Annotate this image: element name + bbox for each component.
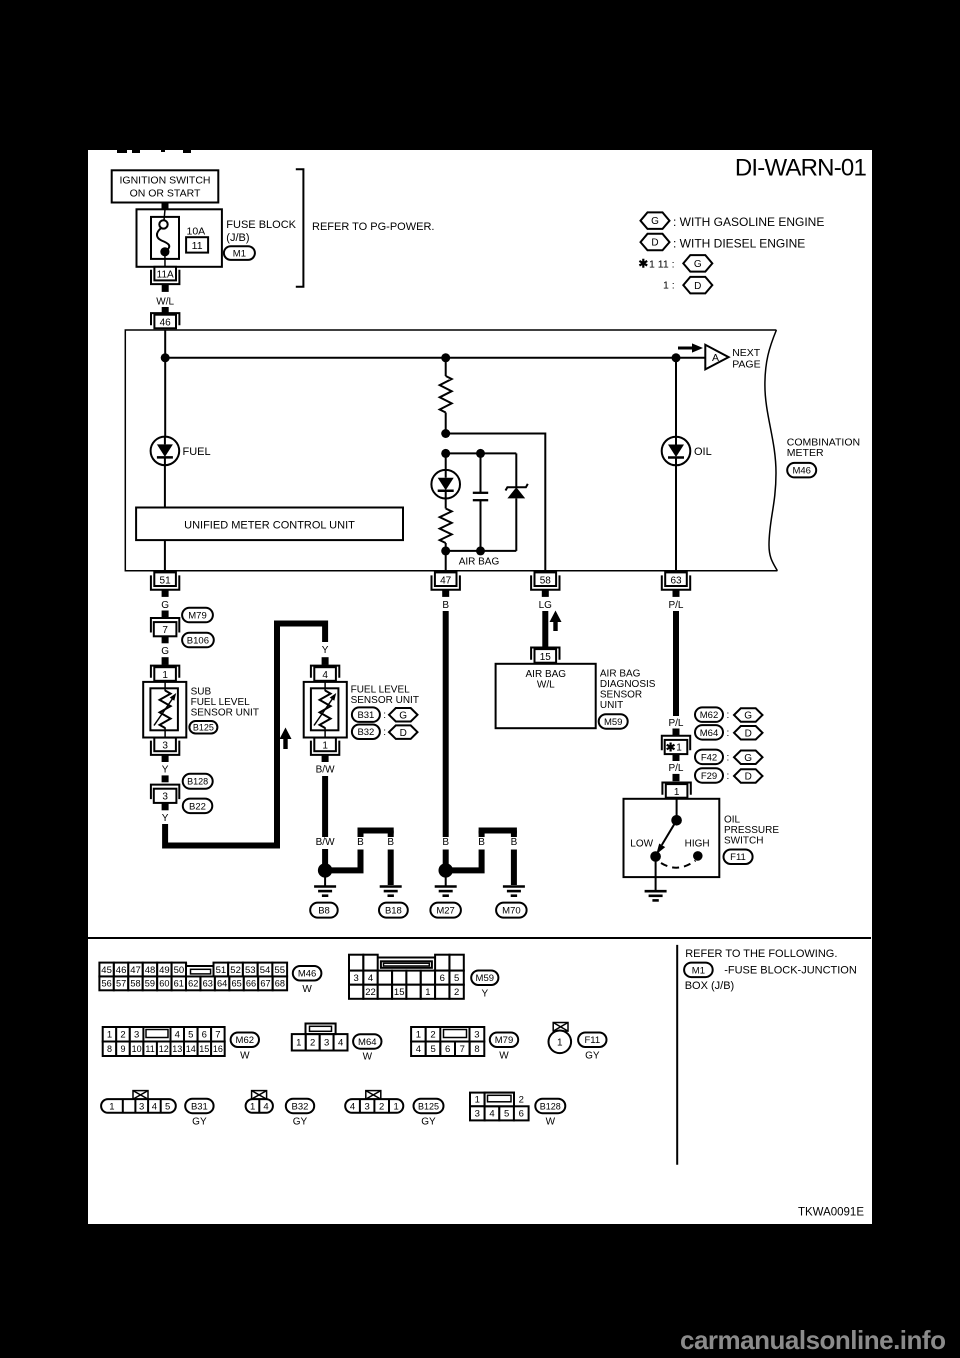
- svg-text:1: 1: [557, 1037, 563, 1048]
- svg-text:7: 7: [215, 1030, 220, 1041]
- connector 1 fuel level sensor: [311, 741, 339, 755]
- svg-text:56: 56: [101, 979, 111, 989]
- svg-text:W/L: W/L: [537, 679, 555, 690]
- svg-text:AIR BAG: AIR BAG: [459, 557, 500, 568]
- svg-text:G: G: [744, 753, 752, 764]
- svg-text:Y: Y: [481, 989, 488, 1000]
- connector id M64 pill with D: [695, 725, 723, 740]
- svg-text:12: 12: [159, 1044, 169, 1054]
- svg-text:TKWA0091E: TKWA0091E: [798, 1207, 864, 1219]
- sub fuel variable resistor: [164, 682, 166, 691]
- svg-text:GY: GY: [421, 1116, 436, 1127]
- fuse number 11 box: [186, 237, 208, 252]
- connector M59 grid: [349, 955, 363, 971]
- svg-text:64: 64: [217, 979, 227, 989]
- connector id F11: [578, 1033, 606, 1048]
- svg-text:B/W: B/W: [316, 764, 335, 775]
- wire 46 to bus: [164, 330, 166, 358]
- svg-text:M79: M79: [495, 1035, 513, 1046]
- svg-text:7: 7: [460, 1044, 465, 1055]
- svg-text:G: G: [651, 216, 659, 227]
- stub below 3: [162, 755, 169, 762]
- svg-text:F42: F42: [701, 752, 717, 763]
- svg-text:M27: M27: [436, 906, 454, 917]
- svg-text:4: 4: [416, 1044, 421, 1055]
- connector M46 key: [186, 965, 213, 967]
- connector id B125: [414, 1099, 444, 1114]
- connector M79 grid: [411, 1027, 426, 1042]
- connector 11A: [151, 270, 179, 284]
- inline connector 7: [151, 618, 179, 633]
- svg-text:7: 7: [162, 625, 168, 636]
- svg-text:57: 57: [116, 979, 126, 989]
- svg-text:B128: B128: [540, 1101, 561, 1111]
- svg-text:W: W: [363, 1052, 373, 1063]
- ignition switch box: [112, 170, 219, 202]
- svg-text:1: 1: [393, 1101, 398, 1112]
- svg-text:SWITCH: SWITCH: [724, 836, 763, 847]
- svg-text:-FUSE BLOCK-JUNCTION: -FUSE BLOCK-JUNCTION: [724, 965, 857, 977]
- connector M59 key: [378, 957, 435, 959]
- svg-text:B: B: [357, 837, 364, 848]
- wire switch to ground: [655, 857, 657, 891]
- svg-text:M1: M1: [233, 248, 246, 259]
- node junction air bag branch: [441, 353, 450, 362]
- svg-text::: :: [727, 710, 730, 721]
- wire M27 to M70 loop: [450, 850, 482, 871]
- sub fuel sensor inner box: [150, 688, 178, 730]
- svg-text:M59: M59: [604, 717, 622, 728]
- svg-text:53: 53: [245, 965, 256, 976]
- svg-text:5: 5: [504, 1109, 509, 1120]
- svg-text:AIR BAG: AIR BAG: [600, 669, 641, 680]
- svg-text:B32: B32: [292, 1101, 309, 1112]
- stub Y to connector 3 B22: [162, 775, 169, 782]
- svg-text:Y: Y: [162, 813, 169, 824]
- ground junction M27: [439, 863, 453, 877]
- wire fuel to unified meter control unit: [164, 465, 166, 507]
- svg-text:45: 45: [101, 965, 112, 976]
- svg-text:10A: 10A: [187, 225, 206, 237]
- node junction cap branch: [441, 449, 450, 458]
- ground B8: [324, 870, 326, 886]
- stub 58: [542, 590, 549, 597]
- svg-text:3: 3: [354, 973, 359, 984]
- svg-text:1: 1: [322, 741, 328, 752]
- svg-text:ON OR START: ON OR START: [130, 187, 201, 199]
- svg-text:G: G: [399, 710, 407, 721]
- unified meter control unit box: [136, 508, 403, 541]
- connector M62 key: [146, 1030, 168, 1038]
- svg-text:W/L: W/L: [156, 297, 174, 308]
- connector M79 key: [444, 1030, 467, 1038]
- connector M64 key: [306, 1024, 336, 1035]
- switch HIGH contact: [693, 851, 703, 861]
- connector F11 circle: [553, 1023, 568, 1032]
- airbag diagnosis sensor unit box: [496, 664, 596, 728]
- svg-text:: WITH GASOLINE ENGINE: : WITH GASOLINE ENGINE: [673, 215, 824, 229]
- svg-text:B18: B18: [385, 906, 402, 917]
- ground oil pressure switch: [645, 890, 667, 893]
- connector B128 grid: [470, 1093, 485, 1107]
- svg-text:1: 1: [425, 987, 430, 998]
- svg-text:1: 1: [162, 670, 168, 681]
- svg-text:3: 3: [162, 791, 168, 802]
- svg-text:F11: F11: [584, 1035, 600, 1046]
- svg-text:M64: M64: [358, 1037, 376, 1048]
- connector B128 key: [488, 1095, 512, 1102]
- svg-text:55: 55: [274, 965, 285, 976]
- fuse element: [164, 209, 165, 220]
- svg-text:G: G: [161, 646, 169, 657]
- svg-text:2: 2: [430, 1030, 435, 1041]
- ground id B8 pill: [310, 903, 338, 918]
- connector 15 airbag unit: [531, 648, 559, 660]
- svg-text:carmanualsonline.info: carmanualsonline.info: [680, 1325, 945, 1355]
- airbag bottom wire: [446, 550, 517, 552]
- off-page triangle A: [705, 345, 728, 370]
- svg-text:P/L: P/L: [668, 600, 683, 611]
- svg-text:1: 1: [250, 1101, 255, 1112]
- node junction capacitor bottom: [476, 546, 485, 555]
- oil indicator lamp: [662, 437, 691, 466]
- svg-text:1 11 :: 1 11 :: [649, 258, 675, 270]
- wire stub 11A: [162, 284, 169, 292]
- svg-text:6: 6: [202, 1030, 207, 1041]
- ground M27: [445, 870, 447, 886]
- ground id B18 pill: [379, 903, 408, 918]
- svg-text:48: 48: [145, 965, 156, 976]
- svg-text:D: D: [694, 281, 701, 292]
- svg-text:4: 4: [368, 973, 373, 984]
- connector 58: [531, 575, 559, 589]
- svg-text:PRESSURE: PRESSURE: [724, 825, 779, 836]
- svg-text:SENSOR: SENSOR: [600, 690, 642, 701]
- stub below *1: [673, 754, 680, 761]
- node junction 58 branch: [441, 429, 450, 438]
- wire LG from 58 down: [542, 611, 548, 647]
- svg-text:M46: M46: [792, 466, 810, 477]
- svg-text:LOW: LOW: [630, 839, 653, 850]
- wire P/L from 63 down: [673, 611, 679, 716]
- arrow to next page: [678, 347, 694, 350]
- stub to *1 connector: [673, 729, 680, 736]
- svg-text:F29: F29: [701, 771, 717, 782]
- svg-text:59: 59: [145, 979, 155, 989]
- svg-text:P/L: P/L: [668, 718, 683, 729]
- svg-text:1 :: 1 :: [663, 280, 675, 292]
- capacitor C: [480, 453, 482, 492]
- node junction capacitor: [476, 449, 485, 458]
- connector id B32: [286, 1099, 314, 1114]
- svg-text:B: B: [478, 837, 485, 848]
- svg-text:3: 3: [324, 1038, 329, 1049]
- svg-text:3: 3: [134, 1030, 139, 1041]
- svg-text:GY: GY: [192, 1116, 207, 1127]
- svg-text:PAGE: PAGE: [732, 358, 760, 370]
- stub 63: [673, 590, 680, 597]
- svg-text:FUEL LEVEL: FUEL LEVEL: [191, 697, 251, 708]
- oil pressure switch box: [624, 799, 720, 877]
- connector id M1 pill: [224, 246, 255, 260]
- svg-text:60: 60: [159, 979, 169, 989]
- svg-text:M46: M46: [298, 969, 316, 980]
- svg-text:IGNITION SWITCH: IGNITION SWITCH: [120, 174, 211, 186]
- svg-text:52: 52: [230, 965, 241, 976]
- fuse block M1 outer box: [137, 209, 222, 266]
- svg-text:3: 3: [364, 1101, 369, 1112]
- svg-text:63: 63: [203, 979, 213, 989]
- svg-text:2: 2: [120, 1030, 125, 1041]
- connector id M62: [231, 1033, 259, 1048]
- connector M62 grid: [103, 1027, 117, 1042]
- svg-text::: :: [727, 771, 730, 782]
- svg-text::: :: [383, 727, 386, 738]
- connector 3 sub fuel sensor: [151, 741, 179, 755]
- connector B32 pill shape: [246, 1099, 273, 1113]
- svg-text:2: 2: [454, 987, 459, 998]
- svg-text:GY: GY: [293, 1116, 308, 1127]
- svg-text:62: 62: [188, 979, 198, 989]
- svg-text:D: D: [400, 728, 407, 739]
- svg-text:11: 11: [192, 240, 203, 252]
- fuel sensor inner box: [311, 688, 339, 730]
- switch dashed travel arc: [661, 861, 696, 868]
- wire cap zener branch: [446, 452, 517, 454]
- wire resistor to bottom node: [445, 543, 447, 551]
- svg-text:FUEL LEVEL: FUEL LEVEL: [351, 684, 411, 695]
- svg-text:B8: B8: [318, 906, 330, 917]
- svg-text:B128: B128: [187, 777, 208, 787]
- connector id B106 pill: [182, 633, 214, 648]
- airbag indicator lamp: [445, 453, 447, 470]
- routed thick wire Y to fuel level sensor: [165, 624, 325, 846]
- svg-text:M62: M62: [236, 1035, 254, 1046]
- svg-text:61: 61: [174, 979, 184, 989]
- connector 63: [662, 575, 690, 589]
- svg-text:15: 15: [540, 652, 552, 663]
- svg-text:13: 13: [172, 1044, 182, 1054]
- connector id M62 pill with G: [695, 707, 723, 722]
- inline connector 3 B22: [151, 785, 179, 800]
- stub G to connector 7: [162, 611, 169, 618]
- svg-text:4: 4: [175, 1030, 180, 1041]
- svg-text:B/W: B/W: [316, 837, 335, 848]
- svg-text:3: 3: [139, 1101, 144, 1112]
- svg-text:F11: F11: [730, 852, 746, 863]
- stub 51: [162, 590, 169, 597]
- svg-text:SENSOR UNIT: SENSOR UNIT: [191, 707, 259, 718]
- svg-text:1: 1: [475, 1095, 480, 1106]
- svg-text:10: 10: [132, 1044, 142, 1054]
- connector id B22 pill: [183, 799, 213, 814]
- svg-text:D: D: [651, 238, 658, 249]
- svg-text:6: 6: [519, 1109, 524, 1120]
- stub below 1: [322, 755, 329, 762]
- svg-text:B: B: [442, 837, 449, 848]
- svg-text:HIGH: HIGH: [685, 839, 710, 850]
- resistor airbag pull-up: [440, 376, 452, 413]
- svg-text:FUEL: FUEL: [183, 446, 211, 458]
- inline connector *1: [662, 736, 690, 751]
- connector id M79: [490, 1033, 518, 1048]
- svg-text:DI-WARN-01: DI-WARN-01: [735, 155, 867, 182]
- svg-text:W: W: [240, 1051, 250, 1062]
- node junction airbag bottom: [441, 546, 450, 555]
- svg-text:47: 47: [130, 965, 141, 976]
- svg-text:A: A: [712, 352, 719, 364]
- connector id B32 pill with D: [352, 725, 380, 740]
- sub fuel level sensor unit box: [143, 682, 186, 738]
- connector B31 bowtie: [133, 1091, 148, 1100]
- svg-text:1: 1: [109, 1101, 114, 1112]
- connector id M46: [293, 966, 322, 981]
- svg-text:5: 5: [454, 973, 459, 984]
- ground M70: [503, 885, 525, 888]
- svg-text:OIL: OIL: [694, 446, 712, 458]
- svg-text:UNIFIED METER CONTROL UNIT: UNIFIED METER CONTROL UNIT: [184, 519, 355, 531]
- svg-text:51: 51: [160, 575, 172, 586]
- node junction 46: [161, 353, 170, 362]
- connector id B31 pill with G: [352, 707, 380, 722]
- connector id M59: [471, 971, 498, 986]
- connector id B128: [535, 1099, 565, 1114]
- switch blade with arrow: [662, 820, 677, 845]
- svg-text:2: 2: [310, 1038, 315, 1049]
- connector B31 pill shape: [101, 1099, 176, 1113]
- combination meter wavy right edge: [765, 330, 778, 571]
- svg-text:Y: Y: [322, 645, 329, 656]
- stub to sub fuel sensor: [162, 657, 169, 665]
- direction arrow up LG: [553, 620, 557, 631]
- wire resistor to node: [445, 413, 447, 434]
- svg-text:M79: M79: [188, 610, 206, 621]
- svg-text:B32: B32: [357, 727, 374, 738]
- connector M64 grid: [292, 1034, 306, 1050]
- legend hexagon D diesel: [641, 234, 670, 251]
- wire oil to 63: [675, 465, 677, 571]
- svg-text:65: 65: [231, 979, 241, 989]
- svg-text:B31: B31: [357, 710, 374, 721]
- direction arrow up: [283, 737, 287, 749]
- svg-text:2: 2: [379, 1101, 384, 1112]
- resistor airbag lower: [440, 509, 452, 544]
- svg-text:51: 51: [216, 965, 227, 976]
- svg-text:METER: METER: [787, 447, 824, 459]
- wire bus to airbag resistor: [445, 358, 447, 376]
- svg-text:49: 49: [159, 965, 170, 976]
- svg-text:50: 50: [174, 965, 185, 976]
- svg-text:(J/B): (J/B): [226, 232, 249, 244]
- svg-text:1: 1: [107, 1030, 112, 1041]
- svg-text:D: D: [745, 728, 752, 739]
- svg-text:54: 54: [260, 965, 271, 976]
- svg-text::: :: [383, 710, 386, 721]
- svg-text:B: B: [442, 600, 449, 611]
- bus wire: [165, 357, 705, 359]
- svg-text:63: 63: [670, 575, 682, 586]
- svg-text:22: 22: [365, 987, 376, 998]
- svg-text:B125: B125: [193, 723, 214, 733]
- connector id M64: [353, 1034, 381, 1049]
- ground id M70 pill: [496, 903, 526, 918]
- svg-text:4: 4: [489, 1109, 494, 1120]
- svg-text:W: W: [302, 984, 312, 995]
- svg-text:B: B: [387, 837, 394, 848]
- wire airbag to 47: [445, 551, 447, 571]
- svg-text:15: 15: [394, 987, 405, 998]
- connector 46: [151, 313, 179, 325]
- svg-text:5: 5: [430, 1044, 435, 1055]
- svg-text:11A: 11A: [157, 270, 174, 281]
- svg-text:SUB: SUB: [191, 686, 212, 697]
- wire unified box to 51: [164, 540, 166, 571]
- connector B125 bowtie: [366, 1091, 381, 1100]
- svg-text:REFER TO THE FOLLOWING.: REFER TO THE FOLLOWING.: [685, 948, 837, 960]
- svg-text:4: 4: [350, 1101, 355, 1112]
- svg-text::: :: [727, 752, 730, 763]
- svg-text:9: 9: [120, 1044, 125, 1054]
- svg-text:M1: M1: [692, 965, 705, 976]
- svg-text:68: 68: [275, 979, 285, 989]
- svg-text:6: 6: [445, 1044, 450, 1055]
- svg-text:M62: M62: [700, 710, 718, 721]
- svg-text:4: 4: [263, 1101, 268, 1112]
- svg-text:5: 5: [188, 1030, 193, 1041]
- svg-text:14: 14: [186, 1044, 196, 1054]
- bracket refer to pg-power: [296, 169, 304, 287]
- stub below 7: [162, 636, 169, 643]
- wire B from 47 down: [443, 611, 449, 837]
- svg-text:M59: M59: [476, 973, 494, 984]
- svg-text:W: W: [499, 1051, 509, 1062]
- svg-text:BOX (J/B): BOX (J/B): [685, 980, 735, 992]
- switch LOW contact: [650, 851, 661, 862]
- connector B32 bowtie: [252, 1091, 267, 1100]
- svg-text:46: 46: [160, 318, 172, 329]
- connector id M79 pill: [182, 608, 213, 623]
- wire B/W down: [322, 776, 328, 837]
- wire stub ignition to fuse block: [162, 203, 169, 210]
- connector 1 oil pressure switch: [662, 783, 690, 795]
- connector B125 pill shape: [345, 1099, 403, 1113]
- svg-text:3: 3: [474, 1030, 479, 1041]
- svg-text:8: 8: [107, 1044, 112, 1054]
- connector 4 fuel level sensor: [311, 666, 339, 678]
- svg-text:GY: GY: [585, 1051, 600, 1062]
- svg-text:1: 1: [674, 787, 680, 798]
- svg-text:1: 1: [416, 1030, 421, 1041]
- stub below B22: [162, 803, 169, 810]
- svg-text:SENSOR UNIT: SENSOR UNIT: [351, 695, 419, 706]
- connector id B125 pill: [189, 721, 217, 734]
- svg-text:M64: M64: [700, 728, 718, 739]
- svg-text:DIAGNOSIS: DIAGNOSIS: [600, 679, 656, 690]
- ground B18: [380, 885, 402, 888]
- svg-text:G: G: [744, 711, 752, 722]
- wire to ground junction B8: [322, 849, 328, 866]
- svg-text:4: 4: [322, 670, 328, 681]
- stub to fuel level sensor 4: [322, 657, 329, 665]
- connector id B31: [185, 1099, 213, 1114]
- wire B8 to B18 loop: [330, 850, 361, 871]
- svg-text:3: 3: [475, 1109, 480, 1120]
- svg-text:4: 4: [338, 1038, 343, 1049]
- connector 51: [151, 575, 179, 589]
- svg-text:B: B: [511, 837, 518, 848]
- divider line: [676, 945, 678, 1165]
- zener diode: [515, 453, 517, 487]
